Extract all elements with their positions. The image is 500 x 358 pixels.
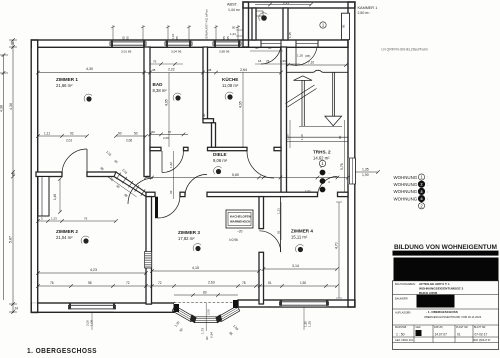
svg-text:75: 75	[153, 60, 157, 64]
svg-text:92: 92	[276, 230, 280, 234]
svg-text:BAUVORHABEN:: BAUVORHABEN:	[395, 282, 416, 286]
svg-text:21,66 m²: 21,66 m²	[56, 83, 73, 88]
svg-text:2,22: 2,22	[168, 68, 175, 72]
svg-text:14.07.07: 14.07.07	[435, 333, 448, 337]
svg-text::: :	[427, 190, 428, 194]
svg-text:2,50: 2,50	[207, 309, 211, 315]
svg-text:2,63: 2,63	[208, 280, 215, 284]
svg-text:2,50 m²: 2,50 m²	[358, 11, 371, 15]
svg-text:LN QRIFFN-SKHELZ8euPhotm: LN QRIFFN-SKHELZ8euPhotm	[382, 48, 429, 52]
svg-text:50: 50	[152, 130, 156, 134]
svg-text:15,11 m²: 15,11 m²	[291, 235, 308, 240]
svg-text:1,90: 1,90	[362, 173, 369, 177]
svg-text:4,95: 4,95	[165, 99, 169, 106]
svg-text:1 : 50: 1 : 50	[396, 333, 405, 337]
svg-text:36: 36	[12, 172, 16, 176]
svg-text:5,87: 5,87	[9, 236, 13, 243]
svg-text:AUFLASSER:: AUFLASSER:	[395, 311, 411, 315]
svg-text:90: 90	[118, 131, 122, 135]
svg-text:14,62 m²: 14,62 m²	[313, 156, 330, 161]
svg-text:~20: ~20	[237, 230, 243, 234]
svg-text:1,11: 1,11	[44, 131, 50, 135]
svg-text::: :	[427, 176, 428, 180]
svg-text:PLAST NR: PLAST NR	[456, 326, 468, 329]
svg-text:4,30: 4,30	[9, 103, 13, 110]
svg-text:WOHNUNGSEIGENTUMSGE 3: WOHNUNGSEIGENTUMSGE 3	[419, 287, 463, 291]
svg-text:5,60: 5,60	[232, 173, 239, 177]
svg-text:30: 30	[11, 42, 15, 46]
svg-text:38: 38	[208, 68, 212, 72]
svg-text:01: 01	[457, 333, 461, 337]
svg-text:1,10: 1,10	[286, 134, 290, 140]
svg-text:4,36: 4,36	[0, 105, 4, 112]
svg-text:ZIMMER 1: ZIMMER 1	[56, 77, 78, 82]
svg-text:4,15: 4,15	[192, 266, 199, 270]
svg-text:8,38 m²: 8,38 m²	[153, 88, 168, 93]
svg-text:WOHNUNG: WOHNUNG	[394, 175, 418, 180]
svg-text:WOHNUNG: WOHNUNG	[394, 196, 418, 201]
svg-text:2,64: 2,64	[240, 68, 247, 72]
svg-text:1,46: 1,46	[53, 194, 57, 200]
svg-text:07-02-17: 07-02-17	[475, 333, 488, 337]
svg-text:1,10: 1,10	[300, 134, 304, 140]
svg-text:· 1. OBERGESCHOSS: · 1. OBERGESCHOSS	[426, 310, 458, 314]
svg-text:BILDUNG VON WOHNEIGENTUM: BILDUNG VON WOHNEIGENTUM	[394, 244, 497, 251]
svg-text:72: 72	[126, 281, 130, 285]
svg-text:MASSTAB: MASSTAB	[395, 326, 407, 329]
svg-text:90: 90	[338, 135, 342, 139]
svg-text:35: 35	[268, 46, 272, 50]
svg-text:GEZ.: GEZ.	[416, 326, 422, 329]
svg-text:3,01 85: 3,01 85	[121, 49, 132, 53]
svg-text:5,76: 5,76	[340, 163, 344, 170]
svg-text:1,23: 1,23	[276, 208, 280, 214]
svg-text:VERMAUERT 4/11 b/Pcm: VERMAUERT 4/11 b/Pcm	[205, 8, 209, 40]
svg-text:38: 38	[152, 68, 156, 72]
svg-text:51: 51	[268, 281, 272, 285]
svg-text:KAMMER 1: KAMMER 1	[358, 6, 378, 10]
svg-text:2,96: 2,96	[280, 59, 286, 63]
svg-text:50: 50	[232, 26, 236, 30]
svg-text:76: 76	[84, 216, 88, 220]
svg-text:98: 98	[88, 281, 92, 285]
svg-text:2,06: 2,06	[163, 136, 169, 140]
svg-text:05: 05	[126, 36, 130, 40]
svg-text:9,06 m²: 9,06 m²	[213, 158, 228, 163]
svg-text:2,06: 2,06	[126, 139, 132, 143]
svg-text:ZIMMER 3: ZIMMER 3	[178, 230, 200, 235]
svg-text:1,20: 1,20	[297, 54, 303, 58]
svg-text:BHKO 2/45B: BHKO 2/45B	[419, 291, 438, 295]
svg-text:4,30: 4,30	[86, 67, 93, 71]
svg-text:3,04 96: 3,04 96	[171, 49, 182, 53]
svg-text:18: 18	[258, 59, 262, 63]
svg-text:1,24: 1,24	[230, 32, 236, 36]
svg-text:92: 92	[70, 131, 74, 135]
svg-text:97: 97	[168, 130, 172, 134]
svg-text:76: 76	[50, 281, 54, 285]
svg-text:3,14: 3,14	[292, 264, 299, 268]
svg-text:DATUM: DATUM	[434, 326, 442, 329]
svg-text:1,25: 1,25	[308, 321, 312, 327]
svg-text:→: →	[328, 171, 331, 175]
svg-text:72: 72	[158, 281, 162, 285]
svg-text:30: 30	[202, 113, 206, 117]
svg-text:WOHNUNG: WOHNUNG	[394, 182, 418, 187]
svg-text:1,01: 1,01	[305, 189, 311, 193]
svg-text:1,05: 1,05	[90, 320, 94, 326]
svg-text:BLD QWK17.07: BLD QWK17.07	[474, 339, 492, 342]
svg-text:TRHS. 2: TRHS. 2	[313, 150, 331, 155]
svg-text:l=0,96: l=0,96	[229, 238, 238, 242]
svg-text:1,62: 1,62	[169, 162, 173, 168]
svg-text::: :	[427, 197, 428, 201]
svg-text:90: 90	[205, 336, 209, 340]
svg-text:05: 05	[226, 36, 230, 40]
svg-text:92: 92	[169, 190, 173, 194]
svg-text:BAUHERR: BAUHERR	[395, 297, 408, 301]
svg-text:3,89 96: 3,89 96	[219, 49, 230, 53]
svg-text:78: 78	[242, 281, 246, 285]
svg-text:05: 05	[175, 36, 179, 40]
svg-text:76: 76	[266, 59, 270, 63]
svg-text:1,50: 1,50	[300, 281, 306, 285]
svg-text:4,95: 4,95	[239, 101, 243, 108]
svg-text:21,04 m²: 21,04 m²	[56, 235, 73, 240]
svg-text:1,23: 1,23	[51, 216, 57, 220]
svg-text:83: 83	[203, 290, 207, 294]
svg-text:BLATT NR: BLATT NR	[474, 326, 486, 329]
svg-text:ZIMMER 2: ZIMMER 2	[56, 229, 78, 234]
svg-text:1,35: 1,35	[288, 32, 292, 38]
svg-text:95: 95	[342, 24, 346, 28]
svg-text:AFTEILGE ARP 6 T. L: AFTEILGE ARP 6 T. L	[419, 282, 450, 286]
svg-text:BAD: BAD	[153, 82, 164, 87]
svg-text:24: 24	[15, 307, 19, 311]
svg-text:ZIMMER 4: ZIMMER 4	[291, 229, 313, 234]
svg-text:2,11: 2,11	[283, 1, 289, 5]
svg-text:WOHNUNG: WOHNUNG	[394, 189, 418, 194]
svg-text:KÜCHE: KÜCHE	[222, 76, 238, 82]
svg-text:4,70: 4,70	[335, 242, 339, 249]
svg-text:11,08 m²: 11,08 m²	[222, 83, 239, 88]
svg-text:0,94: 0,94	[210, 332, 214, 338]
svg-text:(35): (35)	[305, 54, 310, 58]
svg-text:OBERGESCHOSSENTWURF VOM 30.11.: OBERGESCHOSSENTWURF VOM 30.11.2023	[424, 315, 482, 319]
svg-text:GEZ. KINDL 30.1: GEZ. KINDL 30.1	[395, 339, 414, 342]
svg-text:1,44 m²: 1,44 m²	[228, 8, 241, 12]
svg-text:KACHELOFEN: KACHELOFEN	[230, 215, 251, 219]
svg-text:1. OBERGESCHOSS: 1. OBERGESCHOSS	[27, 346, 97, 355]
svg-text:1,73: 1,73	[201, 328, 205, 334]
svg-text:DIELE: DIELE	[213, 152, 227, 157]
svg-text:50: 50	[134, 131, 138, 135]
svg-text:WARMEHOCH: WARMEHOCH	[230, 220, 250, 224]
svg-text:2,01: 2,01	[66, 139, 72, 143]
svg-text:4,23: 4,23	[90, 268, 97, 272]
svg-text:45: 45	[255, 46, 259, 50]
svg-text:1,35: 1,35	[362, 168, 369, 172]
svg-text:ABST.: ABST.	[227, 3, 238, 7]
svg-text:17,82 m²: 17,82 m²	[178, 236, 195, 241]
svg-text::: :	[427, 183, 428, 187]
